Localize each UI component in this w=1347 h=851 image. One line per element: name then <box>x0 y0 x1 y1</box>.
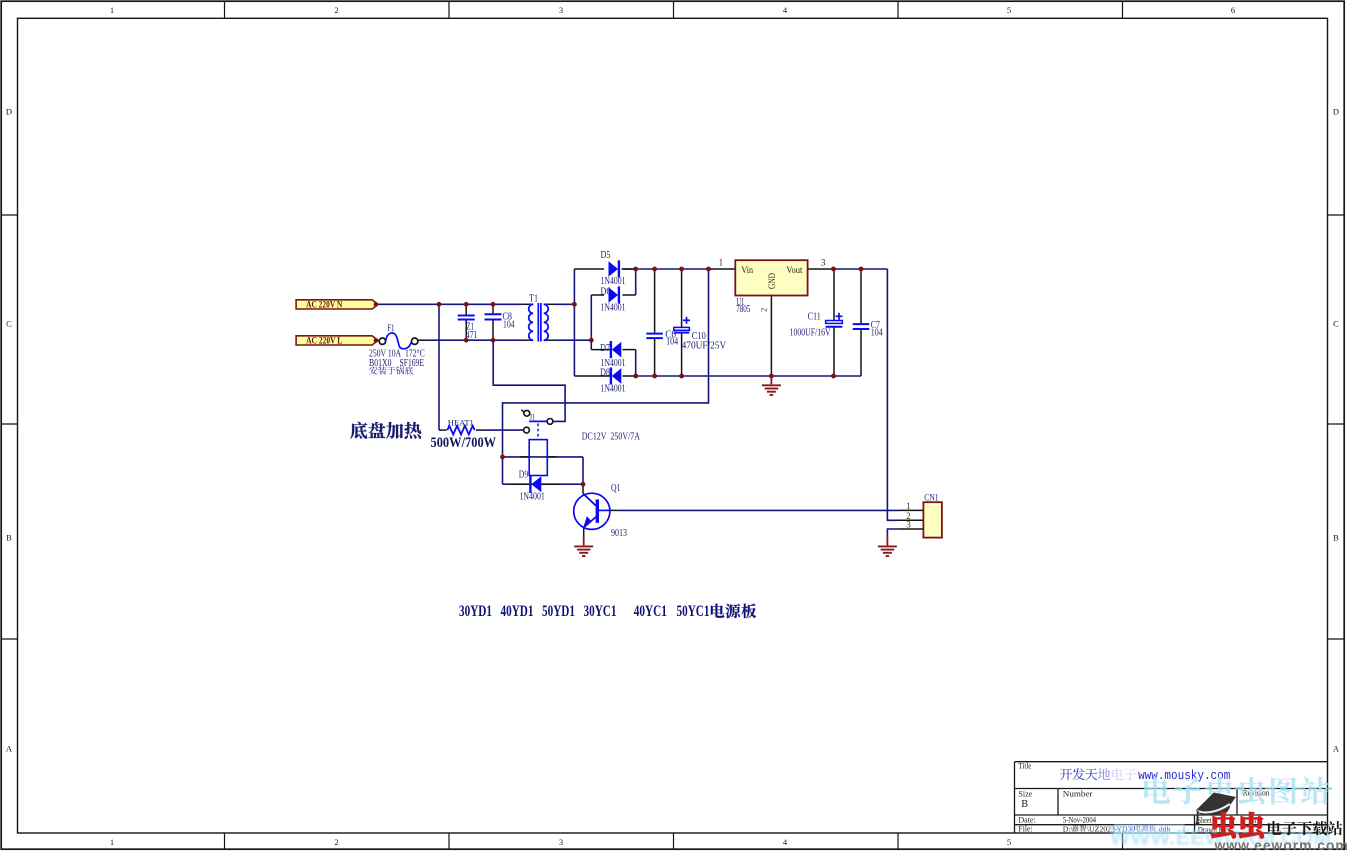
svg-text:2: 2 <box>334 837 338 847</box>
svg-text:40YC1: 40YC1 <box>634 603 667 620</box>
svg-text:6: 6 <box>1231 5 1235 15</box>
svg-text:50YC1: 50YC1 <box>677 603 710 620</box>
svg-text:C: C <box>6 319 12 329</box>
svg-text:5: 5 <box>1007 837 1011 847</box>
svg-text:D7: D7 <box>600 343 610 354</box>
svg-text:C: C <box>1333 319 1339 329</box>
svg-text:104: 104 <box>871 328 884 339</box>
svg-text:470UF/25V: 470UF/25V <box>682 341 727 352</box>
svg-text:1: 1 <box>110 5 114 15</box>
svg-text:www.mousky.com: www.mousky.com <box>1138 768 1230 783</box>
svg-text:CN1: CN1 <box>924 494 938 504</box>
svg-text:D5: D5 <box>601 250 611 261</box>
svg-text:Sheet: Sheet <box>1198 816 1212 825</box>
svg-text:D:\: D:\ <box>1063 824 1074 833</box>
svg-text:1000UF/16V: 1000UF/16V <box>790 328 831 339</box>
svg-text:Revision: Revision <box>1243 788 1270 797</box>
svg-text:www.eeworm.com: www.eeworm.com <box>1214 837 1347 851</box>
svg-text:1: 1 <box>719 259 724 269</box>
svg-text:AC 220V L: AC 220V L <box>306 336 342 346</box>
svg-text:A: A <box>1333 744 1340 754</box>
svg-text:File:: File: <box>1018 825 1032 834</box>
svg-text:Date:: Date: <box>1018 816 1035 825</box>
svg-text:AC 220V N: AC 220V N <box>306 300 342 310</box>
svg-text:30YD1: 30YD1 <box>459 603 492 620</box>
svg-text:DC12V 250V/7A: DC12V 250V/7A <box>582 431 640 443</box>
svg-text:30YC1: 30YC1 <box>584 603 617 620</box>
svg-text:9013: 9013 <box>611 528 627 539</box>
svg-text:104: 104 <box>666 337 679 348</box>
svg-text:B: B <box>6 533 12 543</box>
svg-text:J1: J1 <box>530 412 536 421</box>
svg-text:GND: GND <box>767 273 777 289</box>
svg-text:F1: F1 <box>387 323 395 333</box>
svg-text:1N4001: 1N4001 <box>601 384 626 395</box>
svg-text:1N4001: 1N4001 <box>520 491 545 502</box>
svg-text:D: D <box>6 107 12 117</box>
svg-text:500W/700W: 500W/700W <box>431 434 497 451</box>
svg-text:7805: 7805 <box>736 304 750 315</box>
svg-text:471: 471 <box>466 330 478 341</box>
svg-text:HEAT1: HEAT1 <box>448 418 474 428</box>
svg-text:40YD1: 40YD1 <box>501 603 534 620</box>
svg-text:2: 2 <box>334 5 338 15</box>
svg-text:1: 1 <box>906 501 911 511</box>
svg-text:3: 3 <box>559 837 563 847</box>
svg-text:D6: D6 <box>601 287 611 298</box>
svg-text:Vout: Vout <box>786 265 802 275</box>
svg-text:D8: D8 <box>600 368 610 379</box>
svg-text:5: 5 <box>1007 5 1011 15</box>
svg-text:50YD1: 50YD1 <box>542 603 575 620</box>
svg-text:1N4001: 1N4001 <box>601 303 626 314</box>
svg-text:2: 2 <box>759 308 769 312</box>
svg-text:B: B <box>1021 799 1028 810</box>
svg-text:D: D <box>1333 107 1339 117</box>
svg-text:D9: D9 <box>519 470 528 481</box>
svg-text:Q1: Q1 <box>611 483 621 494</box>
svg-text:Title: Title <box>1018 762 1031 771</box>
svg-text:104: 104 <box>503 320 515 331</box>
svg-text:C11: C11 <box>808 312 821 323</box>
svg-text:3: 3 <box>559 5 563 15</box>
svg-text:B: B <box>1333 533 1339 543</box>
svg-text:A: A <box>6 744 13 754</box>
svg-text:1N4001: 1N4001 <box>601 276 626 287</box>
svg-text:T1: T1 <box>529 294 538 305</box>
svg-text:1: 1 <box>110 837 114 847</box>
svg-text:Vin: Vin <box>741 265 753 275</box>
svg-text:Number: Number <box>1063 789 1093 798</box>
svg-text:3: 3 <box>821 259 826 269</box>
svg-text:3: 3 <box>906 520 911 530</box>
svg-text:Size: Size <box>1018 789 1032 798</box>
